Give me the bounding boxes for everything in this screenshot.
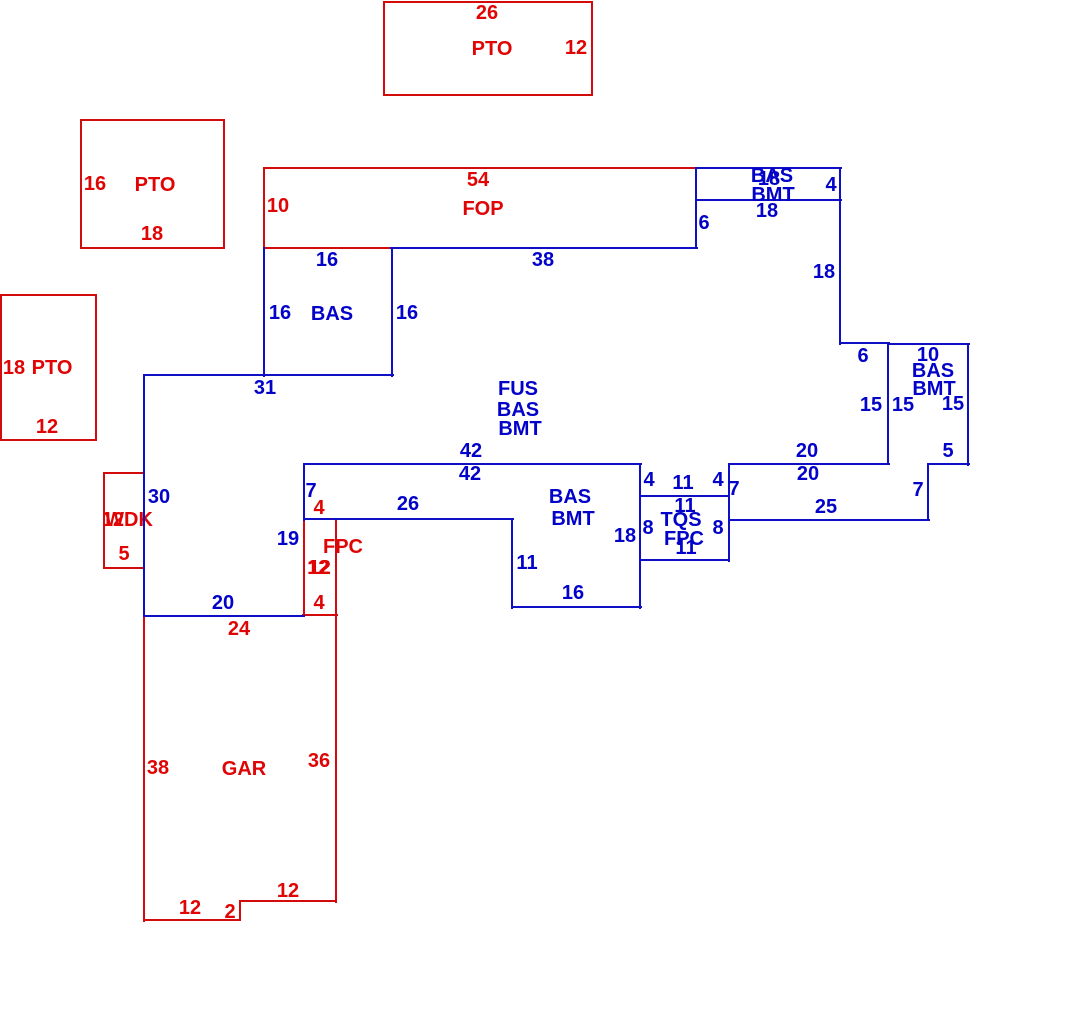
label 12 (small patio width) <box>36 417 58 437</box>
label 7 <box>305 481 316 501</box>
basement box BAS/BMT top-right: bottom edge <box>695 199 842 201</box>
wall y=464 (42 length) <box>303 463 642 465</box>
label 36 (garage right height) <box>308 751 330 771</box>
label 18 (right wall length) <box>813 262 835 282</box>
garage GAR notch step <box>239 900 241 921</box>
wall y=607 (16 length) <box>511 606 642 608</box>
label 25 <box>815 497 837 517</box>
wall x=512 (11 length) <box>511 518 513 609</box>
label 18 (middle room right) <box>614 526 636 546</box>
label 42 (above) <box>460 441 482 461</box>
wall y=616 (20 length) <box>143 615 305 617</box>
label 6 (wall below top-right box) <box>698 213 709 233</box>
label 4 (right of TQS top) <box>712 470 723 490</box>
label FPC (inside TQS) <box>664 529 704 549</box>
label 10 <box>917 345 939 365</box>
label BAS (far-right box) <box>912 361 954 381</box>
label 12 (top patio height) <box>565 38 587 58</box>
label BMT (middle room) <box>551 509 594 529</box>
label 19 (left of FPC) <box>277 529 299 549</box>
label 10 (porch height) <box>267 196 289 216</box>
label 16 (BAS top) <box>316 250 338 270</box>
far-right BAS/BMT box right wall <box>967 343 969 466</box>
far-right BAS/BMT box top edge (10 length) <box>887 343 970 345</box>
wood deck WDK rectangle <box>103 472 145 569</box>
label 12 (FPC height, double printed) <box>308 558 330 578</box>
label 30 <box>148 487 170 507</box>
far-right BAS/BMT box left wall (15 length) <box>887 342 889 465</box>
label 38 (garage left height) <box>147 758 169 778</box>
label 11 (inside TQS top) <box>674 496 695 516</box>
label TQS <box>660 510 701 530</box>
label 16 <box>562 583 584 603</box>
wall y=520 (25 length) <box>728 519 930 521</box>
label 2 (garage notch) <box>224 902 235 922</box>
TQS room right wall x=729 <box>728 463 730 562</box>
label 4 (FPC width top) <box>313 498 324 518</box>
BAS room right wall x=392 <box>391 247 393 377</box>
label 15 (left of wall) <box>860 395 882 415</box>
label 11 (TQS top) <box>672 473 693 493</box>
label BAS (middle room) <box>549 487 591 507</box>
label FOP (porch) <box>462 199 503 219</box>
label 4 (FPC width bottom) <box>313 593 324 613</box>
label BAS (top-right box) <box>751 166 793 186</box>
label 4 (left of TQS top) <box>643 470 654 490</box>
TQS room bottom edge <box>639 559 730 561</box>
garage GAR left wall <box>143 614 145 922</box>
garage GAR bottom-right edge <box>239 900 337 902</box>
wall y=519 (26 length) <box>303 518 514 520</box>
wall x=928 (7 length) <box>927 463 929 521</box>
wall y=248 (38 length) <box>390 247 698 249</box>
label 16 (BAS left) <box>269 303 291 323</box>
open porch FOP rectangle <box>263 167 697 249</box>
patio PTO left rectangle <box>80 119 225 249</box>
label FUS (upper area) <box>498 379 538 399</box>
label 7 (right of TQS) <box>728 479 739 499</box>
label 18 (small patio height) <box>3 358 25 378</box>
wall right edge x=840 (18 length) <box>839 167 841 345</box>
label WDK (deck) <box>105 510 153 530</box>
label 15 (inside box left) <box>892 395 914 415</box>
basement box BAS/BMT top-right: top edge <box>695 167 842 169</box>
TQS room top edge <box>639 495 730 497</box>
label 16 (BAS right) <box>396 303 418 323</box>
wall y=464 (5 length) <box>927 463 970 465</box>
patio PTO top rectangle <box>383 1 593 96</box>
label 5 <box>942 441 953 461</box>
label 42 (below) <box>459 464 481 484</box>
label PTO (left patio) <box>135 175 176 195</box>
label PTO (small patio) <box>32 358 73 378</box>
label 20 (below) <box>797 464 819 484</box>
label 20 (above) <box>796 441 818 461</box>
wall y=464 right (20 length) <box>728 463 890 465</box>
wall x=640 (18 length BAS BMT right) <box>639 463 641 609</box>
label 12 (deck, overlapping WDK) <box>102 510 124 530</box>
garage GAR bottom-left edge <box>143 919 241 921</box>
label 8 (TQS left) <box>642 518 653 538</box>
label 26 (top patio width) <box>476 3 498 23</box>
wall y=375 (31 length) <box>143 374 394 376</box>
label 26 <box>397 494 419 514</box>
label 7 <box>912 480 923 500</box>
garage GAR right wall <box>335 614 337 903</box>
label GAR (garage) <box>222 759 266 779</box>
label 18 (top-right box overlap) <box>758 169 780 189</box>
label BAS (room) <box>311 304 353 324</box>
label 11 <box>516 553 537 573</box>
label 16 (left patio height) <box>84 174 106 194</box>
label 54 (porch width) <box>467 170 489 190</box>
label BMT (top-right box) <box>751 185 794 205</box>
label BAS (upper area) <box>497 400 539 420</box>
label 31 <box>254 378 276 398</box>
label 4 (top-right box height) <box>825 175 836 195</box>
label 20 <box>212 593 234 613</box>
label 18 (left patio width) <box>141 224 163 244</box>
label 38 <box>532 250 554 270</box>
label 12 (garage bottom left) <box>179 898 201 918</box>
label PTO (top patio) <box>472 39 513 59</box>
label BMT (upper area) <box>498 419 541 439</box>
garage GAR top edge red segment <box>302 614 338 616</box>
wall x=304 (7 length) <box>303 463 305 521</box>
label 18 (below top-right box) <box>756 201 778 221</box>
label 24 (garage top width) <box>228 619 250 639</box>
patio PTO small far-left rectangle <box>0 294 97 441</box>
label 8 (TQS right) <box>712 518 723 538</box>
covered porch FPC rectangle <box>303 518 337 616</box>
label 5 (deck width) <box>118 544 129 564</box>
label 6 <box>857 346 868 366</box>
label BMT (far-right box) <box>912 379 955 399</box>
BAS room left wall x=264 <box>263 247 265 377</box>
label 15 (inside box right) <box>942 394 964 414</box>
label 12 (garage bottom right) <box>277 881 299 901</box>
basement box BAS/BMT top-right: left edge down to porch line <box>695 167 697 249</box>
label FPC (porch) <box>323 537 363 557</box>
wall y=343 (6 length) <box>839 342 890 344</box>
label 11 (inside TQS bottom) <box>675 538 696 558</box>
wall x=144 (30 length) <box>143 374 145 617</box>
